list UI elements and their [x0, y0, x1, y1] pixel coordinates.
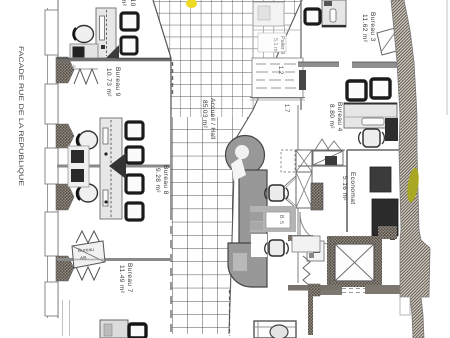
wc fixture [307, 241, 324, 261]
stair table box [252, 58, 306, 98]
bureau 8 chair 2 [126, 203, 143, 220]
bureau 8 chair 1 [126, 175, 143, 193]
faint facade lines bottom left [63, 300, 70, 336]
reception counter [226, 136, 268, 288]
palier wall left [252, 0, 254, 98]
bureau 4 desk [344, 103, 397, 128]
bureau 3 chair [305, 9, 320, 24]
svg-text:8.80 m²: 8.80 m² [328, 104, 335, 129]
elevator shaft walls [327, 236, 382, 287]
sanitaires X-box upper [296, 150, 312, 172]
bureau 10 chair right 2 [121, 37, 137, 54]
svg-text:AB: AB [80, 255, 88, 261]
svg-text:Bureau 7: Bureau 7 [126, 263, 133, 293]
svg-text:FACADE RUE DE LA REPUBLIQUE: FACADE RUE DE LA REPUBLIQUE [17, 46, 24, 186]
svg-text:B. 5: B. 5 [278, 215, 284, 224]
bureau 10 chair right 1 [121, 13, 138, 30]
window W2 [45, 84, 58, 124]
svg-text:Bureau 10: Bureau 10 [129, 0, 136, 7]
label bureau 3 [361, 12, 376, 43]
label FACADE RUE DE LA REPUBLIQUE [17, 46, 24, 186]
exterior hatched wall band [391, 0, 430, 338]
economat walls [347, 150, 401, 232]
faint line right edge [446, 0, 448, 115]
stair box bottom lines [250, 98, 305, 101]
svg-text:11.62 m²: 11.62 m² [361, 14, 368, 43]
bureau 10 door triangle [106, 45, 119, 58]
bureau 4 office chair [359, 129, 385, 147]
wall pier P2 [56, 124, 74, 148]
svg-text:Accueil / Hall: Accueil / Hall [209, 98, 216, 140]
photocopier 1 [370, 167, 391, 192]
svg-text:9.28 m²: 9.28 m² [154, 168, 161, 193]
sanitaires X-box lower [296, 172, 312, 208]
palier landing gray strip [250, 206, 296, 232]
bureau 3 desk [322, 0, 346, 27]
svg-text:85.03 m²: 85.03 m² [201, 100, 208, 129]
bureau 7 chair bottom [129, 324, 146, 338]
yellow marker dot [186, 0, 197, 8]
wall bottom elevator right [365, 285, 401, 294]
palier wall top [253, 29, 301, 31]
speckled block lower [309, 284, 320, 296]
door triangles bureau9/8 [109, 153, 126, 179]
bureau 10 monitor [73, 47, 85, 58]
bureau 9 chair 2 [126, 147, 143, 163]
wall bureau3/bureau4 right part [352, 62, 405, 68]
bureau 9 round chair left [77, 131, 98, 149]
bottom desk room [254, 321, 296, 338]
corridor wall x298 [297, 105, 299, 283]
label Accueil / Hall 85.03 m2 [201, 98, 216, 140]
svg-text:Bureau 4: Bureau 4 [336, 102, 343, 132]
closet AB box upper [296, 139, 345, 165]
wall under AB box [298, 165, 347, 167]
hall boundary right diagonal [229, 0, 302, 334]
svg-text:Ab: Ab [70, 64, 76, 69]
svg-text:Economat: Economat [349, 172, 356, 204]
bureau 4 chair 1 [347, 81, 366, 100]
white notch in band [400, 297, 410, 315]
sanitaires dashed box [281, 150, 295, 172]
office chair hall 2 [265, 240, 289, 256]
elevator cab [335, 244, 374, 281]
bureau 4 side unit [385, 118, 398, 141]
label 1.2 [277, 66, 283, 75]
door leaf bureau 3 [377, 28, 400, 55]
door arc middle [300, 212, 330, 244]
radiator zigzag right [303, 256, 310, 286]
speckled block middle [311, 183, 323, 210]
label 1.7 [283, 104, 289, 113]
wall bottom left segment [288, 285, 342, 295]
door dashes bottom [342, 289, 365, 293]
label bureau 4 [328, 102, 343, 132]
wall pier P1 [56, 57, 74, 83]
olive highlight [405, 167, 420, 203]
bureau 9/8 shared desk [100, 118, 122, 219]
photocopier 2 [372, 199, 398, 240]
svg-text:Palier 9: Palier 9 [279, 36, 285, 54]
door V marks [278, 176, 296, 208]
closet AB bureau 7 [72, 231, 105, 280]
wall bureau3/bureau4 left part [298, 62, 339, 67]
label bureau 10 (cut) [120, 0, 136, 7]
label economat [341, 172, 356, 204]
bureau 8 round chair left [77, 184, 98, 202]
faint desk top palier [253, 2, 284, 26]
bureau 10 desk [96, 8, 116, 58]
label bureau 7 [118, 263, 133, 294]
window W4 [45, 212, 58, 256]
label palier box [258, 33, 286, 52]
hall boundary left [153, 0, 171, 334]
palier wall right [300, 0, 302, 110]
bureau 10 desk return [70, 44, 98, 58]
window W5 [45, 282, 58, 316]
bureau 10 round chair [73, 26, 93, 43]
dark block right of elevator [378, 226, 397, 239]
svg-text:11.10 m²: 11.10 m² [120, 0, 127, 7]
svg-text:Bureau: Bureau [78, 247, 95, 254]
label palier [272, 36, 285, 54]
wall bureau9/bureau8 [57, 165, 170, 168]
bureau 7 desk bottom [100, 320, 128, 338]
window W1 [45, 10, 58, 55]
svg-text:1.2: 1.2 [277, 66, 283, 75]
wall bureau8/bureau7 [57, 258, 170, 261]
desk right middle [292, 236, 320, 252]
window W3 [45, 148, 58, 184]
wall left facade inner line [57, 0, 59, 318]
bureau 4 chair 2 [371, 79, 390, 98]
wall pier P4 [56, 256, 74, 281]
label bureau 9 [105, 67, 121, 97]
svg-text:Bureau 8: Bureau 8 [162, 165, 169, 195]
wall left facade outer line [47, 8, 49, 318]
closet zigzag bureau 9 [70, 64, 98, 84]
svg-text:1.7: 1.7 [283, 104, 289, 113]
speckled wall vertical bottom [308, 294, 313, 335]
svg-text:Bureau 9: Bureau 9 [114, 67, 121, 97]
svg-text:5.16 m²: 5.16 m² [341, 176, 348, 201]
bureau 9 chair 1 [126, 122, 143, 139]
svg-text:5.1 m²: 5.1 m² [272, 38, 278, 53]
side table monitors [68, 146, 89, 187]
hall floor grid [150, 0, 310, 336]
wall pier P3 [56, 184, 74, 210]
office chair hall 1 [265, 185, 289, 201]
svg-text:11.49 m²: 11.49 m² [118, 265, 125, 294]
svg-text:Bureau 3: Bureau 3 [369, 12, 376, 42]
svg-text:10.73 m²: 10.73 m² [105, 68, 112, 97]
label bureau 8 [154, 165, 169, 195]
door dashes hall left [172, 62, 174, 96]
hall dashed boundary bottom [229, 290, 231, 336]
wall bureau10/bureau9 [57, 58, 171, 59]
palier labels gray [250, 212, 290, 230]
elevator surround walls [288, 235, 330, 290]
